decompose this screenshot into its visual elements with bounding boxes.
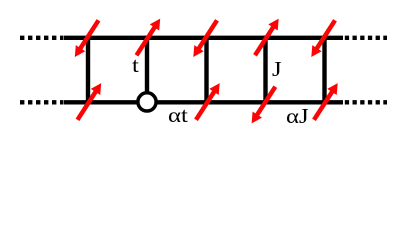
wire: rung 1 bbox=[86, 36, 90, 105]
spin arrow bottom site 4 (down) bbox=[252, 87, 276, 124]
spin arrow bottom site 3 (up) bbox=[196, 83, 220, 120]
label alpha-t (leg hopping) bbox=[168, 105, 188, 126]
wire: top leg left dotted continuation bbox=[20, 36, 63, 40]
spin arrow bottom site 5 (up) bbox=[314, 83, 338, 120]
spin arrow top site 1 (down) bbox=[75, 20, 99, 57]
label alpha-J (leg exchange) bbox=[286, 106, 309, 127]
wire: rung 5 bbox=[322, 36, 326, 105]
spin arrow top site 4 (up) bbox=[255, 19, 279, 56]
wire: top leg solid bbox=[64, 36, 344, 40]
spin arrow top site 2 (up) bbox=[137, 19, 161, 56]
wire: bottom leg solid bbox=[64, 100, 344, 104]
spin arrow top site 3 (down) bbox=[193, 20, 217, 57]
wire: rung 4 bbox=[263, 36, 267, 105]
wire: bottom leg right dotted continuation bbox=[345, 100, 387, 104]
wire: rung 3 bbox=[204, 36, 208, 105]
wire: bottom leg left dotted continuation bbox=[20, 100, 63, 104]
label t (rung hopping) bbox=[132, 55, 139, 76]
spin arrow top site 5 (down) bbox=[311, 20, 335, 57]
wire: top leg right dotted continuation bbox=[345, 36, 387, 40]
spin arrow bottom site 1 (up) bbox=[78, 83, 102, 120]
label J (rung exchange) bbox=[272, 59, 282, 80]
wire: rung 2 bbox=[145, 36, 149, 95]
node: hole (empty site circle) bbox=[138, 93, 156, 111]
